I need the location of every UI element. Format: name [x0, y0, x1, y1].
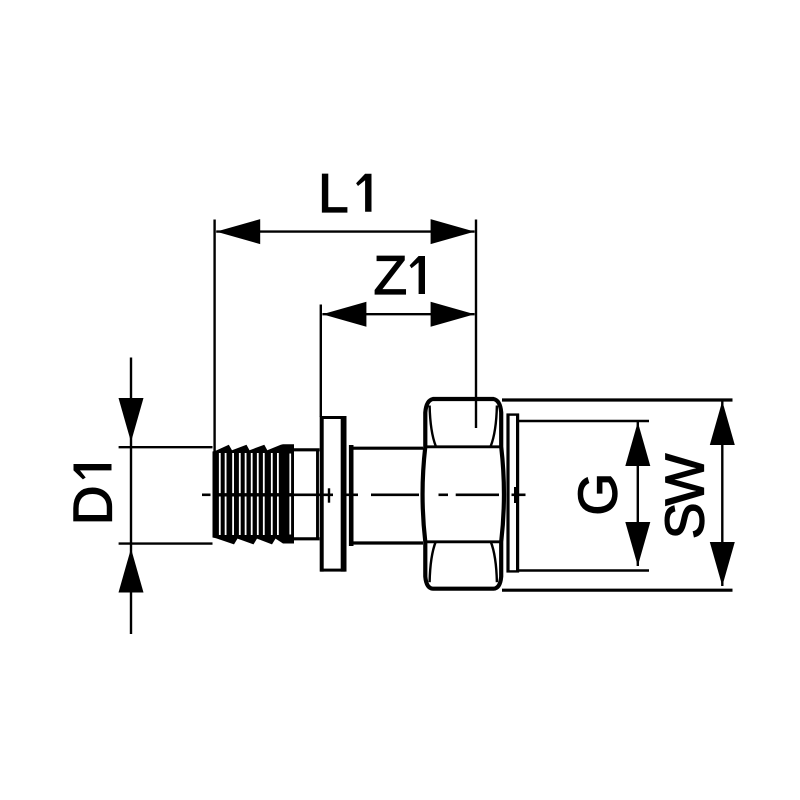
- center tick at washer: [514, 487, 516, 503]
- hex corner arc top-right: [491, 406, 497, 447]
- SW arrow lower: [710, 542, 735, 586]
- flange right edge: [341, 416, 347, 572]
- flange disc: [321, 418, 343, 571]
- dimension G line: [637, 422, 639, 566]
- washer ring after nut: [506, 414, 509, 573]
- svg-text:D: D: [62, 485, 124, 525]
- L1 arrow left: [216, 219, 260, 244]
- hex corner arc top-left: [430, 406, 436, 447]
- socket cylinder outer lines (also SW extension lines): [502, 398, 733, 401]
- D1 arrow upper: [119, 398, 144, 442]
- dimension D1 extension line upper: [119, 446, 213, 448]
- svg-text:Z: Z: [374, 244, 408, 306]
- D1 arrow lower: [119, 549, 144, 593]
- dimension Z1 extension line left: [320, 305, 322, 418]
- L1 arrow right: [431, 219, 475, 244]
- center line across ribs: [214, 493, 292, 496]
- rib white slits: [219, 453, 291, 535]
- hex corner arc bottom-right: [491, 542, 497, 583]
- Z1 arrow left: [322, 302, 366, 327]
- G arrow upper: [625, 422, 650, 466]
- dimension D1 line: [130, 358, 132, 635]
- svg-text:SW: SW: [654, 454, 716, 540]
- center tick at flange: [328, 488, 330, 502]
- hex corner arc bottom-left: [430, 542, 436, 583]
- neck cylinder between ribs and flange: [293, 448, 320, 451]
- svg-text:L: L: [318, 162, 349, 224]
- bore lines G thread (also G extension lines): [519, 420, 649, 423]
- dimension L1 line: [216, 230, 474, 232]
- dimension SW line: [721, 401, 723, 586]
- body cylinder between flange and hex nut: [351, 447, 423, 450]
- dimension L1 / Z1 extension line right: [475, 220, 477, 429]
- Z1 arrow right: [431, 302, 475, 327]
- G arrow lower: [625, 522, 650, 566]
- dimension Z1 line: [322, 313, 474, 315]
- center line: [202, 493, 526, 496]
- dimension L1 extension line left: [213, 220, 215, 453]
- shoulder cap line right of flange: [349, 445, 354, 546]
- hex facet line upper: [426, 445, 501, 448]
- neck end cap line: [316, 449, 319, 540]
- svg-text:G: G: [567, 473, 629, 516]
- press-fitting ribbed end silhouette: [213, 444, 295, 544]
- hex union nut silhouette: [423, 399, 504, 589]
- hex facet line lower: [426, 540, 501, 543]
- dimension D1 extension line lower: [119, 542, 213, 544]
- flange left edge: [320, 416, 323, 572]
- SW arrow upper: [710, 401, 735, 445]
